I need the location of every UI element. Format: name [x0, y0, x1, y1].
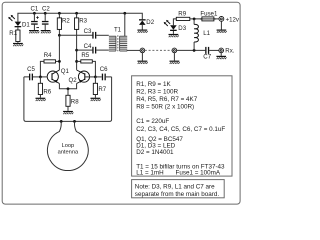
wire D3 to ground: [172, 31, 174, 34]
label +12v: [226, 16, 240, 23]
wire P2 to C7: [177, 49, 206, 51]
node emitter join: [67, 87, 70, 90]
wire Q2 base lead: [85, 76, 96, 78]
wire C2 lead: [44, 13, 46, 30]
note box: [132, 180, 225, 198]
svg-text:R6: R6: [43, 88, 51, 95]
svg-text:C1: C1: [31, 5, 39, 12]
svg-text:R2: R2: [62, 17, 70, 24]
fuse Fuse1: [200, 17, 216, 21]
svg-text:Fuse1 = 100mA: Fuse1 = 100mA: [176, 170, 221, 177]
wire C3 to T1: [96, 34, 109, 36]
ground under C1: [29, 30, 39, 33]
loop antenna: [47, 121, 88, 170]
capacitor C2: [42, 21, 49, 25]
label Q2: [69, 77, 78, 84]
ground under R8: [63, 111, 73, 114]
node R2 tap: [58, 12, 61, 15]
transformer T1 core: [117, 35, 119, 52]
ground under C2: [41, 30, 51, 33]
svg-text:R4, R5, R6, R7 = 4K7: R4, R5, R6, R7 = 4K7: [136, 96, 198, 103]
node R4-R2: [58, 60, 61, 63]
ground under P1: [138, 61, 148, 64]
svg-text:D2 = 1N4001: D2 = 1N4001: [136, 149, 174, 156]
wire R5 left lead: [77, 60, 81, 62]
wire Q1 collector riser: [58, 35, 60, 70]
ground under Rx: [216, 56, 226, 59]
wire R7 to ground: [94, 95, 96, 98]
node R3-C4: [75, 49, 78, 52]
ground under R6: [36, 98, 46, 101]
resistor R3: [75, 18, 79, 30]
wire R2 leads: [58, 13, 60, 35]
wire R6 stub: [39, 77, 41, 83]
wire R5 right riser: [92, 61, 95, 77]
capacitor C3: [92, 32, 96, 39]
label R6: [43, 88, 51, 95]
wire D1 to R1: [17, 27, 19, 30]
wire Q1 base lead: [40, 76, 47, 78]
wire R9 left lead: [173, 19, 176, 25]
node R9-L1-fuse: [193, 18, 196, 21]
connector +12v: [219, 17, 224, 22]
node R5-R3: [75, 60, 78, 63]
svg-text:Rx.: Rx.: [225, 47, 234, 54]
svg-text:R5: R5: [81, 52, 89, 59]
wire R9 to fuse: [190, 18, 219, 20]
label R2: [62, 17, 70, 24]
wire Rx ground stub: [220, 53, 222, 56]
wire +12V top rail: [18, 13, 142, 21]
capacitor C5: [29, 74, 33, 81]
svg-text:antenna: antenna: [58, 150, 79, 156]
wire L1 top lead: [193, 19, 195, 25]
svg-text:L1: L1: [203, 30, 210, 37]
label D3: [178, 25, 186, 32]
label Loop antenna: [58, 143, 79, 156]
svg-text:C5: C5: [27, 66, 35, 73]
ground under P2: [170, 61, 180, 64]
capacitor C7: [205, 47, 209, 54]
capacitor C1: [31, 16, 39, 27]
transformer T1 left winding: [109, 36, 116, 51]
svg-text:R1: R1: [9, 30, 17, 37]
wire P2 ground stub: [173, 53, 175, 61]
label R8: [71, 98, 79, 105]
wire C6 right lead: [106, 76, 112, 78]
ground under +12v connector: [217, 30, 227, 33]
LED D3: [164, 20, 177, 31]
resistor R9: [176, 17, 190, 20]
wire D2 to ground: [141, 25, 143, 30]
values text: [136, 81, 225, 177]
svg-text:L1 = 1mH: L1 = 1mH: [136, 170, 164, 177]
values box: [132, 76, 232, 176]
wire Q1 emitter: [59, 84, 68, 89]
border frame: [2, 2, 240, 204]
label C4: [84, 43, 92, 50]
svg-text:R4: R4: [44, 52, 52, 59]
svg-text:R8 = 50R (2 x 100R): R8 = 50R (2 x 100R): [136, 104, 194, 111]
resistor R5: [81, 60, 93, 63]
node T1 tap: [123, 12, 126, 15]
svg-text:D3: D3: [178, 25, 186, 32]
capacitor C6: [102, 74, 106, 81]
wire R8 to ground: [67, 106, 69, 111]
label C2: [42, 5, 50, 12]
wire C4 to T1: [96, 49, 109, 51]
svg-text:separate from the main board.: separate from the main board.: [135, 191, 220, 198]
label T1: [114, 26, 122, 33]
svg-text:C1 = 220uF: C1 = 220uF: [136, 118, 169, 125]
connector P2: [172, 48, 177, 53]
svg-text:R2, R3 = 100R: R2, R3 = 100R: [136, 88, 178, 95]
svg-text:D2: D2: [146, 19, 154, 26]
transformer T1 right winding: [120, 36, 128, 51]
label D1: [22, 22, 30, 29]
resistor R6: [38, 83, 42, 94]
svg-text:Note: D3, R9, L1 and C7 are: Note: D3, R9, L1 and C7 are: [135, 184, 215, 191]
node C2 tap: [44, 12, 47, 15]
wire C1 lead: [33, 13, 35, 30]
transistor Q2: [77, 70, 90, 84]
svg-text:R7: R7: [98, 86, 106, 93]
svg-text:+12v: +12v: [226, 16, 240, 23]
wire C6 left lead: [95, 76, 101, 78]
connector P1: [140, 48, 145, 53]
label R9: [178, 11, 186, 18]
wire T1 right top lead: [124, 13, 126, 36]
label R5: [81, 52, 89, 59]
wire T1 right bottom lead: [127, 49, 140, 51]
svg-text:R1, R9 = 1K: R1, R9 = 1K: [136, 81, 171, 88]
svg-text:Q1: Q1: [61, 68, 70, 75]
svg-text:D1: D1: [22, 22, 30, 29]
capacitor C4: [92, 47, 96, 54]
svg-text:C2: C2: [42, 5, 50, 12]
transistor Q1: [47, 70, 59, 84]
node R2-C3: [58, 34, 61, 37]
svg-text:Fuse1: Fuse1: [200, 10, 218, 17]
cable dashed link: [145, 49, 172, 51]
label R4: [44, 52, 52, 59]
ground under D2: [137, 30, 147, 33]
svg-text:R3: R3: [79, 17, 87, 24]
wire R7 stub: [94, 77, 96, 83]
LED D1: [8, 15, 21, 27]
node C1 tap: [33, 12, 36, 15]
node Q1 base: [39, 76, 42, 79]
label D2: [146, 19, 154, 26]
wire R4 left riser: [40, 61, 44, 77]
svg-text:R8: R8: [71, 98, 79, 105]
label R3: [79, 17, 87, 24]
svg-text:Loop: Loop: [62, 143, 75, 149]
diode D2: [139, 19, 146, 25]
label C1: [31, 5, 39, 12]
node L1 bottom: [193, 49, 196, 52]
label L1: [203, 30, 210, 37]
label C7: [203, 54, 211, 61]
note text: [135, 184, 220, 199]
label Rx: [225, 47, 234, 54]
label R1: [9, 30, 17, 37]
node R3 tap: [75, 12, 78, 15]
svg-text:C2, C3, C4, C5, C6, C7 = 0.1uF: C2, C3, C4, C5, C6, C7 = 0.1uF: [136, 126, 225, 133]
resistor R8: [66, 95, 70, 106]
svg-text:C7: C7: [203, 54, 211, 61]
svg-text:C3: C3: [84, 28, 92, 35]
label R7: [98, 86, 106, 93]
svg-text:Q2: Q2: [69, 77, 78, 84]
label C6: [100, 66, 108, 73]
ground under D3: [169, 34, 179, 37]
label Q1: [61, 68, 70, 75]
resistor R7: [93, 83, 97, 94]
ground under R7: [91, 98, 101, 101]
connector Rx: [219, 48, 224, 53]
wire R8 stub: [67, 89, 69, 96]
wire C7 to Rx: [209, 49, 219, 51]
wire R6 to ground: [39, 95, 41, 98]
wire P1 ground stub: [141, 53, 143, 61]
ground under R1: [13, 43, 23, 46]
inductor L1: [194, 24, 198, 42]
wire antenna loop left: [24, 77, 112, 122]
wire C5 right lead: [33, 76, 41, 78]
resistor R4: [44, 60, 56, 63]
label Fuse1: [200, 10, 218, 17]
svg-text:C6: C6: [100, 66, 108, 73]
node Q2 base: [94, 76, 97, 79]
resistor R1: [16, 30, 20, 42]
wire L1 bottom lead: [193, 42, 195, 50]
resistor R2: [57, 18, 61, 30]
wire Q2 emitter: [68, 84, 77, 89]
svg-text:R9: R9: [178, 11, 186, 18]
wire C3 left: [59, 34, 92, 36]
wire C4 left: [77, 49, 93, 51]
svg-text:C4: C4: [84, 43, 92, 50]
label C5: [27, 66, 35, 73]
wire R1 to ground: [17, 42, 19, 43]
node antenna tap left: [60, 120, 63, 123]
wire R3 leads: [76, 13, 78, 70]
node antenna tap right: [73, 120, 76, 123]
wire R4 right lead: [56, 60, 60, 62]
svg-text:T1: T1: [114, 26, 122, 33]
wire +12v ground stub: [220, 21, 222, 29]
label C3: [84, 28, 92, 35]
